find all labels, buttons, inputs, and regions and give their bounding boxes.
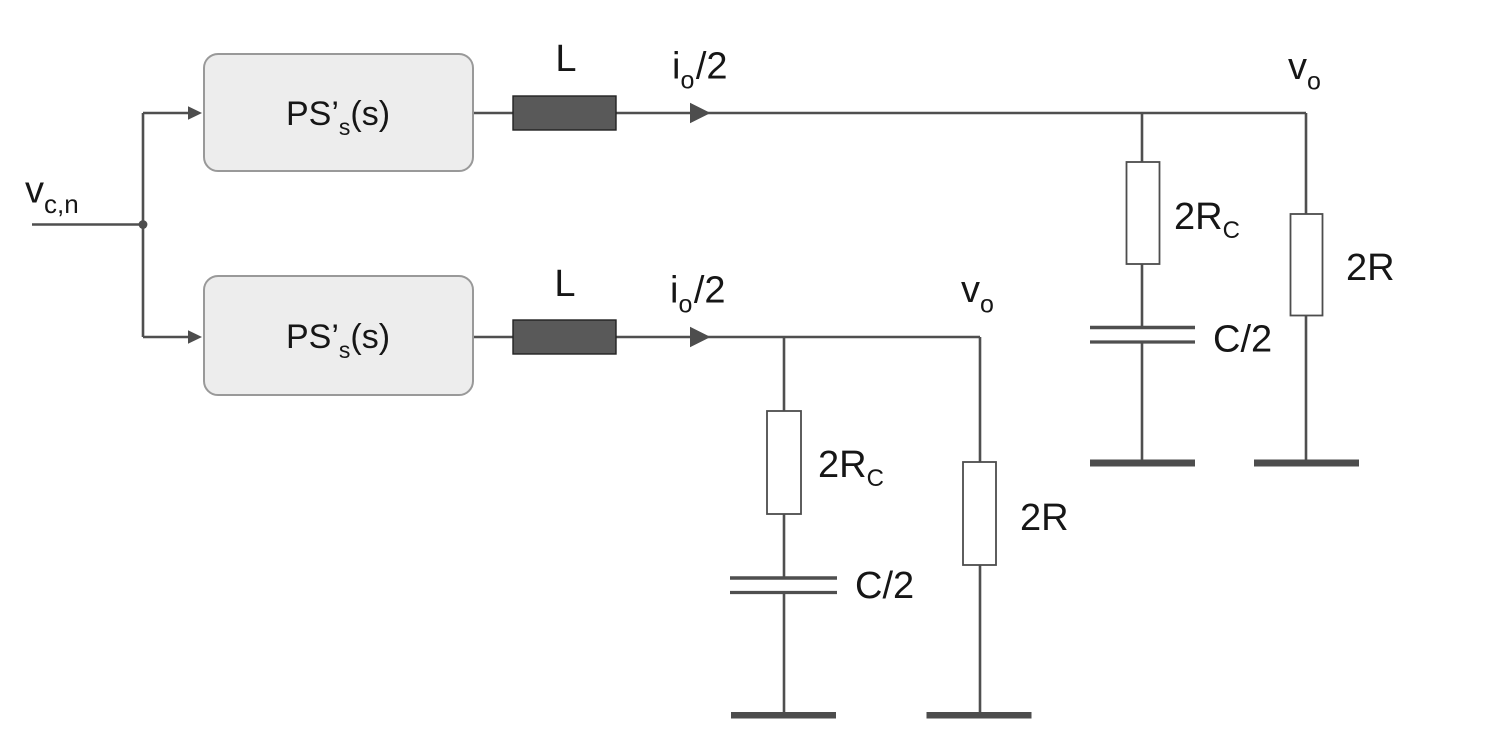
svg-text:L: L: [555, 38, 576, 80]
svg-text:2R: 2R: [1346, 247, 1395, 289]
svg-text:io/2: io/2: [672, 45, 728, 94]
svg-text:L: L: [554, 263, 575, 305]
svg-text:C/2: C/2: [1213, 319, 1272, 361]
svg-text:io/2: io/2: [670, 269, 726, 318]
svg-text:C/2: C/2: [855, 565, 914, 607]
svg-text:2R: 2R: [1020, 497, 1069, 539]
